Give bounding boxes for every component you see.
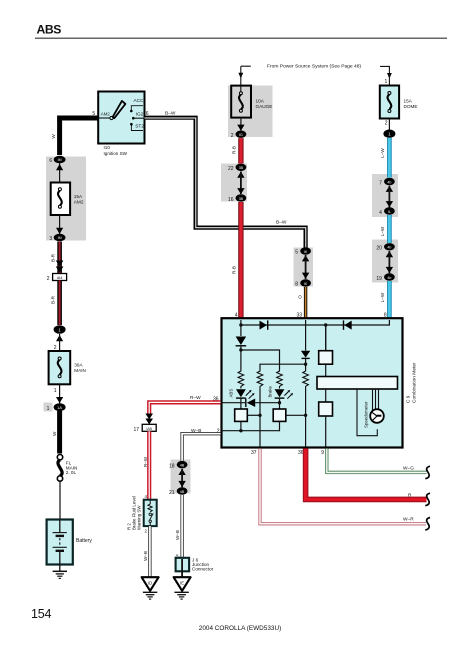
circuit plate (long rectangle) xyxy=(317,377,398,390)
fuse 15A DOME xyxy=(380,86,418,119)
svg-text:4B: 4B xyxy=(180,490,185,494)
svg-text:4: 4 xyxy=(379,210,382,216)
svg-text:6: 6 xyxy=(49,158,52,164)
wire O (orange) from oval 8 to meter pin 33 xyxy=(304,287,307,319)
svg-text:Brake: Brake xyxy=(267,385,272,397)
arrow down into oval 8 xyxy=(302,273,309,279)
wire L-W from oval 4 to oval 20 xyxy=(387,215,392,243)
connector oval 2 IG xyxy=(231,131,247,139)
gray highlight panel (ovals 20/19 DOME) xyxy=(372,240,398,283)
svg-text:4b: 4b xyxy=(387,180,391,184)
wire W-B from meter pin 2 to oval 18 xyxy=(182,434,221,461)
gray highlight panel (ovals 7/4 DOME) xyxy=(372,174,398,217)
svg-text:2: 2 xyxy=(145,529,148,534)
svg-text:B–W: B–W xyxy=(165,110,176,116)
wire box U1 output to pin37 branch xyxy=(247,414,260,416)
svg-text:1: 1 xyxy=(47,406,50,412)
wire W-R from meter pin 37 to right edge xyxy=(260,449,426,524)
arrow up into oval 5 xyxy=(302,255,309,261)
svg-text:10A: 10A xyxy=(256,98,265,103)
gray highlight panel (ovals 22/16) xyxy=(221,164,247,202)
svg-text:4b: 4b xyxy=(387,276,391,280)
LED Brake warning light xyxy=(267,385,293,398)
wire J6 to ground IE xyxy=(181,559,183,578)
svg-text:IK: IK xyxy=(304,282,308,286)
svg-text:2004 COROLLA (EWD533U): 2004 COROLLA (EWD533U) xyxy=(199,625,281,632)
svg-text:IA4: IA4 xyxy=(57,276,63,280)
svg-text:ST2: ST2 xyxy=(135,124,144,130)
junction node U2/pin36 xyxy=(304,414,307,417)
junction node pin33/crossbar xyxy=(304,363,307,366)
svg-text:19: 19 xyxy=(376,276,382,282)
svg-text:IE: IE xyxy=(180,581,184,586)
connector oval 19 xyxy=(376,273,394,282)
svg-text:R–W: R–W xyxy=(143,456,148,467)
svg-text:4b: 4b xyxy=(387,246,391,250)
svg-text:2. 0L: 2. 0L xyxy=(66,470,77,475)
svg-text:ACC: ACC xyxy=(133,98,144,104)
svg-text:W–G: W–G xyxy=(403,465,414,471)
diode D5 (left-pointing, pin36 wire) xyxy=(246,399,255,408)
gray highlight panel (10A GAUGE fuse area) xyxy=(228,86,273,138)
continuation squiggle W-R xyxy=(425,518,430,531)
wire W thick from oval 1A to FL MAIN xyxy=(57,411,62,454)
fuse 10A GAUGE xyxy=(231,86,272,118)
speedometer branch: square component S1 xyxy=(319,325,333,364)
fusible link FL MAIN 2.0L xyxy=(57,455,77,482)
svg-text:1: 1 xyxy=(385,79,388,85)
svg-text:GAUGE: GAUGE xyxy=(256,104,273,109)
svg-text:15A: 15A xyxy=(74,194,83,199)
svg-text:30A: 30A xyxy=(74,363,83,368)
svg-text:AM2: AM2 xyxy=(101,111,111,116)
svg-text:2: 2 xyxy=(47,276,50,282)
arrow down into oval 2 xyxy=(237,125,244,131)
fuse 15A AM2 xyxy=(51,183,84,216)
wire S2 down to pin 9 xyxy=(325,416,327,447)
svg-text:B-R: B-R xyxy=(51,295,56,304)
wire from fuse GAUGE to oval 2 xyxy=(240,118,242,131)
svg-text:7: 7 xyxy=(379,180,382,186)
arrow down into oval 16 xyxy=(237,188,244,194)
wire between ovals 20 and 19 xyxy=(388,251,390,273)
wire W thick black from ignition AM2 to connector 6 xyxy=(60,118,99,155)
svg-text:IG: IG xyxy=(239,133,243,137)
svg-text:L–W: L–W xyxy=(380,292,385,302)
connector 2 IA4 xyxy=(47,274,67,283)
svg-text:Speedometer: Speedometer xyxy=(364,401,369,428)
wire between ovals 7 and 4 xyxy=(388,186,390,208)
svg-text:IM: IM xyxy=(58,236,62,240)
wire R thick from meter pin 36 to right edge xyxy=(306,449,427,500)
wire from oval 6 to fuse AM2 xyxy=(59,163,61,183)
wire from DOME fuse to oval 1 xyxy=(388,119,390,131)
wire R-B from oval 2 to oval 22 xyxy=(238,138,243,163)
battery xyxy=(47,520,93,565)
svg-text:4B: 4B xyxy=(180,463,185,467)
gray highlight panel (ovals 18/21 W-B) xyxy=(171,460,191,494)
svg-text:21: 21 xyxy=(169,490,175,496)
svg-text:16: 16 xyxy=(228,197,234,203)
arrow down into oval 4 xyxy=(386,201,393,207)
ground below battery xyxy=(53,565,67,579)
wire R-B from oval 16 to meter pin 4 xyxy=(238,202,243,319)
arrow down into oval 1A xyxy=(56,397,63,403)
power feed arrow (DOME) xyxy=(380,66,392,92)
connector oval 8 IK xyxy=(295,279,311,287)
wire pin36 branch down xyxy=(305,389,307,447)
svg-text:2: 2 xyxy=(385,121,388,127)
wire B-R from oval 3 to connector IA4 xyxy=(57,242,62,274)
continuation squiggle W-G xyxy=(425,466,430,479)
resistor R2 (pin37 branch) xyxy=(257,370,263,389)
wire ABS branch down + crossbar to Brake branch xyxy=(241,346,280,370)
wire between ovals 18 and 21 xyxy=(181,469,183,488)
speedometer wires from plate xyxy=(357,389,379,436)
connector oval 22 xyxy=(228,164,246,172)
connector oval 4 xyxy=(379,207,395,216)
connector oval 18 xyxy=(169,461,187,470)
wire L-W from oval 19 to meter pin 8 xyxy=(387,281,392,319)
wire R-W from connector 17 to brake fluid switch xyxy=(147,431,151,500)
svg-text:W–B: W–B xyxy=(175,530,180,540)
arrow up into oval 6 xyxy=(56,164,63,170)
wire between ovals 22 and 16 xyxy=(240,172,242,195)
ground triangle IE xyxy=(174,577,191,591)
svg-text:37: 37 xyxy=(251,450,257,456)
connector oval 20 xyxy=(376,243,394,252)
junction node at pin4 branch xyxy=(239,323,242,326)
wire from 30A MAIN to oval 1A xyxy=(59,384,61,404)
svg-text:O: O xyxy=(298,295,303,299)
svg-text:From Power Source System (See: From Power Source System (See Page 48) xyxy=(267,64,361,70)
svg-text:Ignition SW: Ignition SW xyxy=(104,151,128,156)
meter internal top bus wire xyxy=(241,320,390,351)
wire B-W from ignition IG2 down to oval 5 xyxy=(145,118,306,248)
earth symbol (right) xyxy=(174,592,188,599)
driver box U2 (Brake) xyxy=(273,409,286,421)
wire W-B from switch to ground ID xyxy=(148,526,151,576)
earth symbol (left) xyxy=(143,592,157,599)
junction connector J6 xyxy=(176,557,214,571)
connector oval 1 xyxy=(54,325,66,334)
wire B-R from IA4 to oval 1 xyxy=(57,281,62,326)
label C 9 Combination Meter xyxy=(406,362,418,403)
wire from oval 1 to fuse 30A MAIN xyxy=(59,334,61,351)
arrow up into oval 7 xyxy=(386,186,393,192)
resistor R1 (ABS branch) xyxy=(238,370,244,389)
wire box U2 output to pin36 branch xyxy=(286,414,306,416)
continuation squiggle R xyxy=(425,493,430,506)
svg-text:IK: IK xyxy=(304,250,308,254)
svg-text:8: 8 xyxy=(295,282,298,288)
svg-text:1: 1 xyxy=(54,388,57,394)
arrow down into oval 3 xyxy=(56,228,63,234)
wire W-B from oval 21 to junction connector J6 xyxy=(180,495,183,559)
svg-text:Connector: Connector xyxy=(192,567,214,572)
wire ground bus to pin 2 xyxy=(223,421,280,430)
gray highlight panel (AM2 fuse area) xyxy=(46,157,86,241)
wire L-W from oval 1 to oval 7 xyxy=(387,138,392,178)
svg-text:18: 18 xyxy=(169,463,175,469)
connector oval 1 (DOME) xyxy=(383,130,395,138)
svg-text:17: 17 xyxy=(133,427,139,433)
svg-text:C 9: C 9 xyxy=(406,395,412,403)
svg-text:W–B: W–B xyxy=(191,428,201,434)
svg-text:R-B: R-B xyxy=(231,146,236,154)
svg-text:5: 5 xyxy=(92,111,95,117)
connector 17 IA5 xyxy=(133,424,156,433)
connector oval 5 xyxy=(295,247,311,255)
connector oval 7 xyxy=(379,178,395,187)
wire S1 to circuit plate xyxy=(325,364,327,377)
svg-text:ABS: ABS xyxy=(228,389,233,398)
LED ABS warning light xyxy=(228,389,254,399)
combination meter C9 box xyxy=(222,318,403,447)
svg-text:4: 4 xyxy=(145,494,148,499)
arrow up into oval 1 xyxy=(56,335,63,341)
svg-text:B-R: B-R xyxy=(51,253,56,262)
svg-text:ABS: ABS xyxy=(37,23,62,37)
diode D3 (down, ABS branch) xyxy=(236,325,247,346)
wire pin37 branch down xyxy=(259,389,261,447)
arrow up into oval 22 xyxy=(237,172,244,178)
svg-text:W: W xyxy=(51,134,56,139)
svg-text:IG2: IG2 xyxy=(136,112,144,118)
junction node Brake/pin36 xyxy=(278,401,281,404)
title ABS xyxy=(35,23,447,39)
wire pin33 branch to crossbar xyxy=(260,358,306,369)
resistor R4 (pin36 branch) xyxy=(303,370,309,389)
diode D2 (left-pointing, top bus) xyxy=(344,320,352,329)
svg-text:IL: IL xyxy=(388,210,391,214)
resistor R3 (Brake branch) xyxy=(277,370,283,389)
svg-text:ID: ID xyxy=(148,581,152,586)
svg-text:2: 2 xyxy=(231,133,234,139)
svg-text:R-B: R-B xyxy=(231,266,236,274)
svg-text:W–B: W–B xyxy=(143,551,148,561)
wire from FL MAIN to battery xyxy=(59,481,61,520)
junction node at speedometer branch xyxy=(324,323,327,326)
arrow down into oval 21 xyxy=(178,481,185,487)
svg-text:IM: IM xyxy=(58,158,62,162)
diode D4 (down, pin33 branch) xyxy=(301,351,310,359)
wire W-G from meter pin 9 to right edge xyxy=(327,449,427,473)
svg-text:MAIN: MAIN xyxy=(74,368,86,373)
svg-text:DOME: DOME xyxy=(404,104,418,109)
speedometer M1 xyxy=(364,401,384,428)
svg-text:3B: 3B xyxy=(239,166,244,170)
connector oval 21 xyxy=(169,487,187,496)
svg-text:L–W: L–W xyxy=(380,226,385,236)
brake fluid level warning switch R2 xyxy=(127,496,157,530)
power feed arrow (GAUGE) xyxy=(238,66,250,92)
square component S2 xyxy=(319,389,333,416)
svg-text:15A: 15A xyxy=(404,99,413,104)
junction node U1 bottom/ground bus xyxy=(239,429,242,432)
svg-text:3B: 3B xyxy=(239,197,244,201)
svg-text:Battery: Battery xyxy=(76,538,92,544)
connector oval 1A xyxy=(47,403,66,412)
double arrow into connector 17 xyxy=(145,414,153,425)
svg-text:Combination Meter: Combination Meter xyxy=(412,362,418,403)
svg-text:IA5: IA5 xyxy=(146,427,152,431)
svg-text:W: W xyxy=(52,431,57,436)
svg-text:22: 22 xyxy=(228,166,234,172)
driver box U1 (ABS) xyxy=(235,409,248,421)
svg-text:AM2: AM2 xyxy=(74,199,84,204)
svg-text:B–W: B–W xyxy=(276,219,287,225)
svg-text:R: R xyxy=(408,492,412,498)
gray highlight panel (ovals 5/8) xyxy=(294,248,314,287)
connector oval 6 IM xyxy=(49,156,65,164)
svg-text:L–W: L–W xyxy=(380,148,385,158)
connector oval 16 xyxy=(228,194,246,203)
ignition switch I10 xyxy=(92,92,148,156)
svg-text:I10: I10 xyxy=(104,145,111,150)
wire from fuse AM2 to oval 3 xyxy=(59,215,61,234)
svg-text:9: 9 xyxy=(321,450,324,456)
wire R-W from meter pin 36 to connector 17 xyxy=(149,402,220,414)
ground triangle ID xyxy=(142,577,159,591)
junction node U1/pin37 xyxy=(258,414,261,417)
fuse 30A MAIN xyxy=(49,351,86,384)
arrow up into oval 18 xyxy=(178,469,185,475)
gray tag behind label 1 of connector 1A xyxy=(44,403,53,412)
svg-text:W–R: W–R xyxy=(403,517,414,523)
wire pin36-left horizontal with diode xyxy=(223,402,280,404)
svg-text:154: 154 xyxy=(31,607,52,621)
svg-text:20: 20 xyxy=(376,246,382,252)
svg-text:3: 3 xyxy=(49,236,52,242)
arrow up into oval 20 xyxy=(386,251,393,257)
wires LED cathodes into driver boxes xyxy=(241,398,280,409)
svg-text:1A: 1A xyxy=(57,406,62,410)
svg-text:R–W: R–W xyxy=(190,395,201,401)
connector oval 3 IM xyxy=(49,234,65,242)
arrow down into oval 19 xyxy=(386,267,393,273)
svg-text:5: 5 xyxy=(295,250,298,256)
diode D1 (right-pointing, top bus) xyxy=(260,320,268,329)
wire between ovals 5 and 8 xyxy=(305,255,307,279)
double arrow into connector 2 IA4 xyxy=(56,261,64,273)
svg-text:Warning SW: Warning SW xyxy=(137,505,142,530)
